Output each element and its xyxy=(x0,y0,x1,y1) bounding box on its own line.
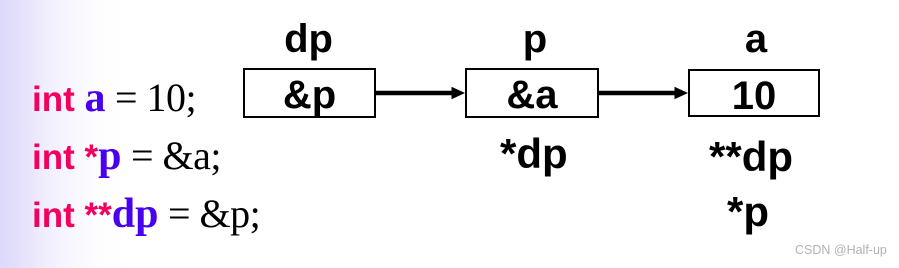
box 3 (a): value 10 xyxy=(688,69,820,117)
arrow 1: dp box -> p box xyxy=(376,80,466,106)
box 2 (p): value &a xyxy=(465,68,599,118)
label a above box 3 xyxy=(690,19,822,59)
label dp above box 1 xyxy=(242,19,375,59)
arrow 2: p box -> a box xyxy=(599,80,689,106)
code line 1: int a = 10; xyxy=(32,70,196,128)
text **dp below box 3 xyxy=(709,136,793,178)
code line 3: int **dp = &p; xyxy=(32,186,260,244)
box 2 text &a xyxy=(465,75,599,115)
watermark CSDN @Half-up xyxy=(795,243,887,258)
code line 2: int *p = &a; xyxy=(32,128,221,186)
box 1 text &p xyxy=(243,75,376,115)
box 1 (dp): value &p xyxy=(243,68,376,118)
label p above box 2 xyxy=(468,19,602,59)
box 3 text 10 xyxy=(688,76,820,116)
text *p below box 3 xyxy=(727,191,769,233)
text *dp below box 2 xyxy=(500,133,568,175)
